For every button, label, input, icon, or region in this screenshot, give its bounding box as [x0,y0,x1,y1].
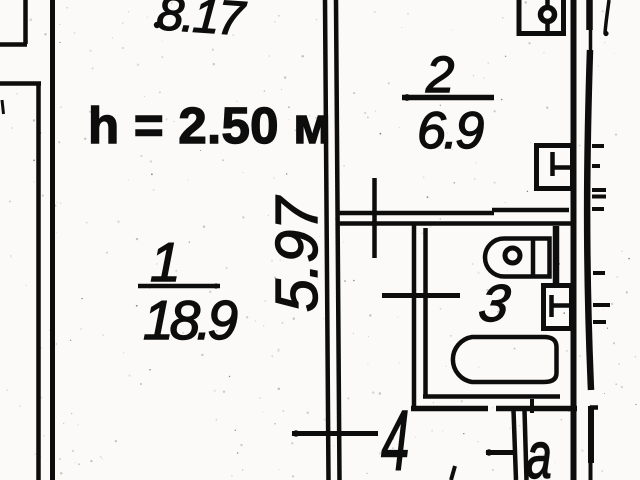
svg-text:5.97: 5.97 [264,195,330,312]
svg-text:2: 2 [425,46,454,103]
svg-text:4: 4 [381,394,409,480]
svg-text:a: a [526,419,552,480]
svg-text:8.17: 8.17 [155,0,248,46]
svg-text:h = 2.50 м: h = 2.50 м [88,97,331,154]
svg-text:6.9: 6.9 [417,102,483,160]
svg-text:18.9: 18.9 [143,289,237,351]
svg-text:1: 1 [150,231,181,293]
